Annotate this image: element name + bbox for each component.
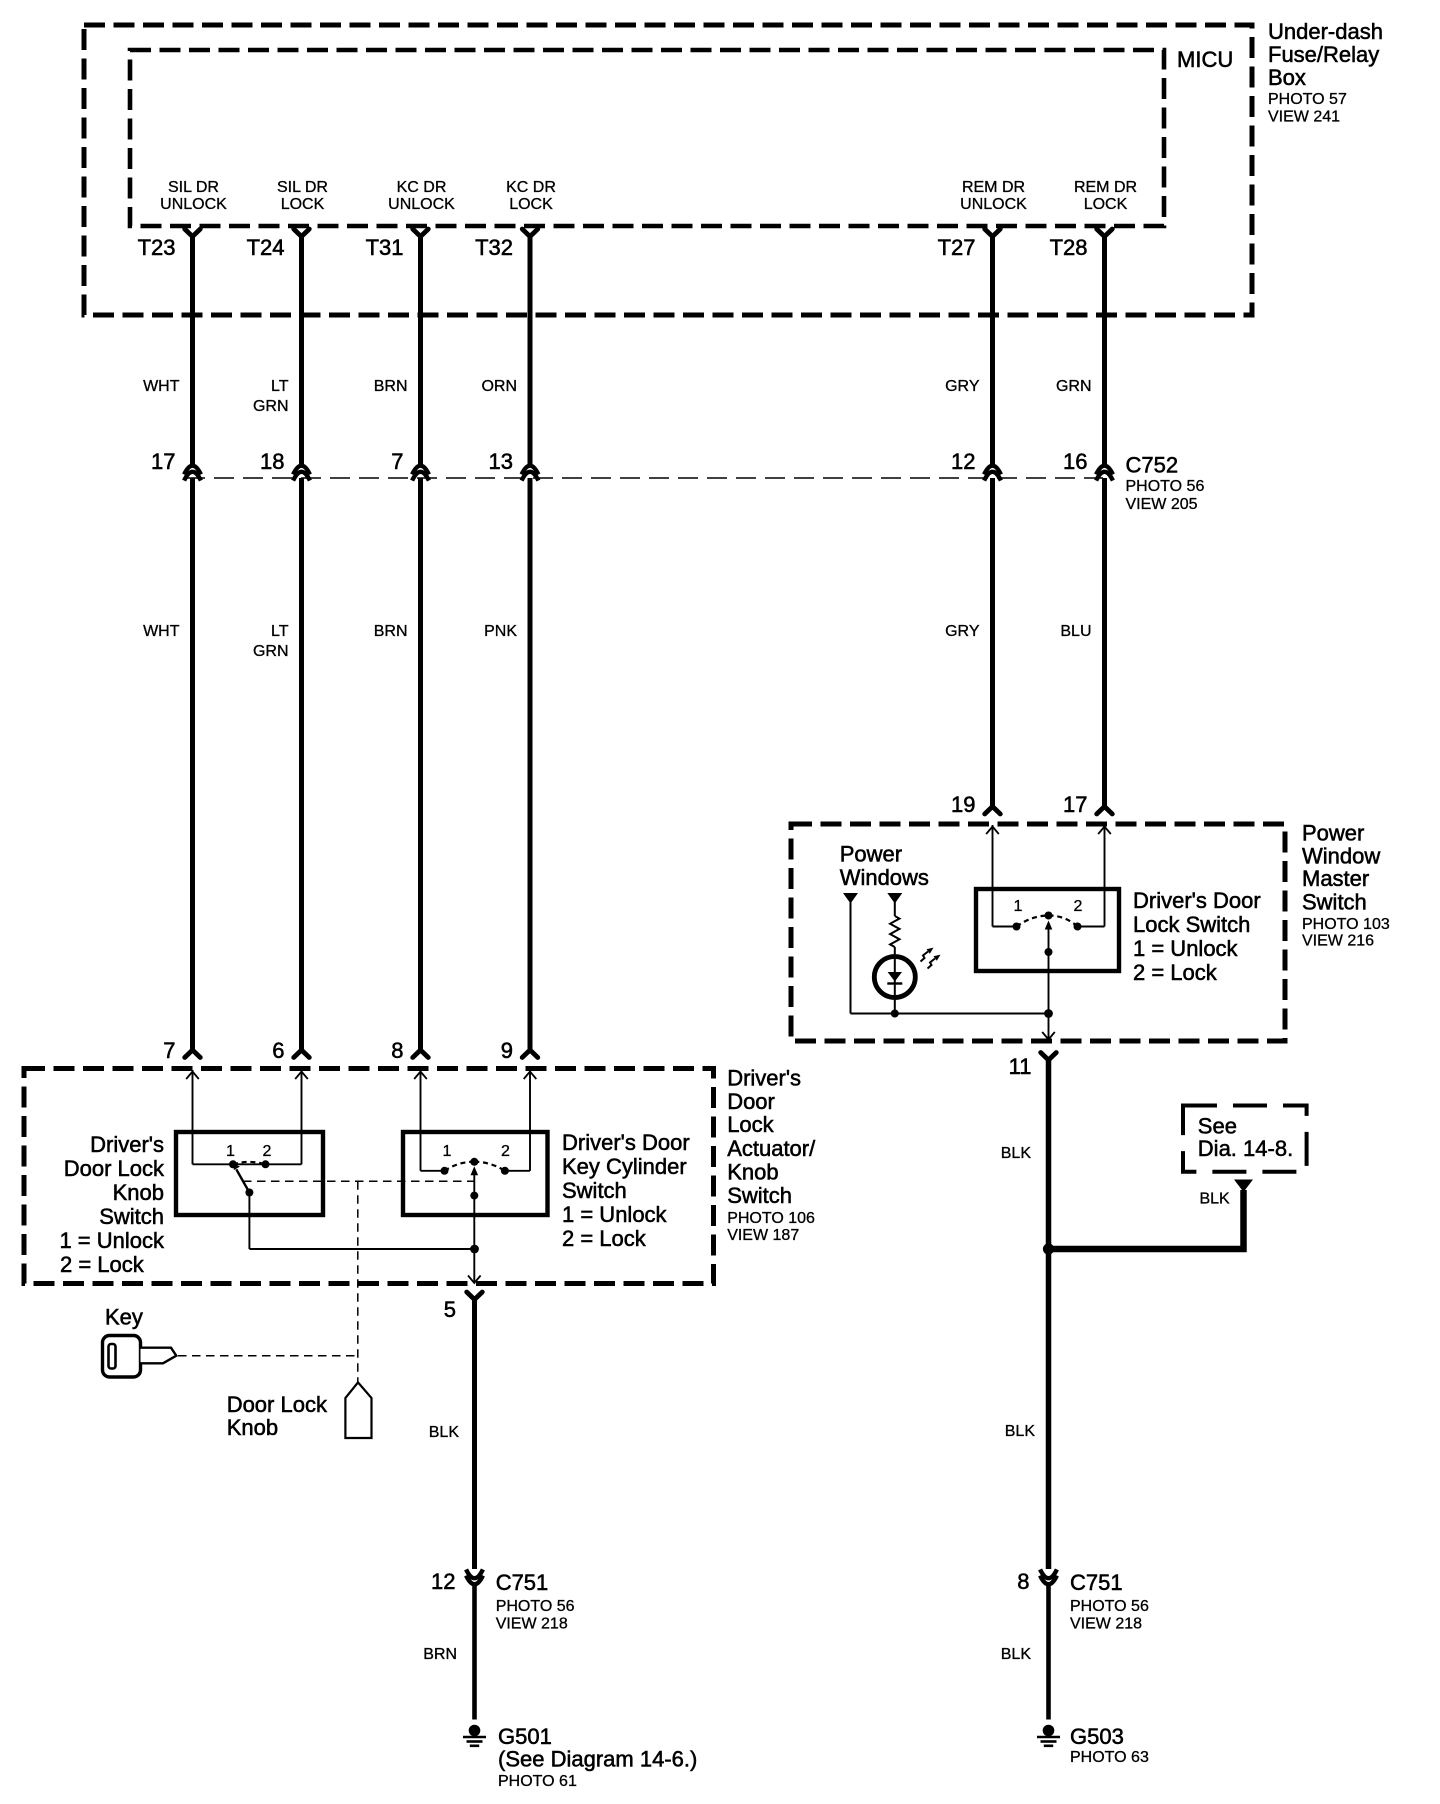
svg-text:Knob: Knob <box>113 1180 164 1205</box>
svg-text:2: 2 <box>1074 898 1083 915</box>
svg-text:VIEW 218: VIEW 218 <box>496 1616 568 1633</box>
svg-text:VIEW 205: VIEW 205 <box>1126 496 1198 513</box>
svg-text:17: 17 <box>151 449 175 474</box>
svg-text:PHOTO 56: PHOTO 56 <box>496 1598 575 1615</box>
svg-text:Key: Key <box>105 1305 143 1330</box>
svg-text:LT: LT <box>271 623 289 640</box>
svg-text:LOCK: LOCK <box>1084 196 1128 213</box>
svg-text:Switch: Switch <box>562 1178 627 1203</box>
svg-text:G503: G503 <box>1070 1724 1124 1749</box>
svg-text:WHT: WHT <box>143 623 180 640</box>
svg-text:Box: Box <box>1268 65 1306 90</box>
svg-text:2: 2 <box>263 1143 272 1160</box>
svg-text:9: 9 <box>501 1038 513 1063</box>
svg-text:ORN: ORN <box>481 378 517 395</box>
svg-text:(See Diagram 14-6.): (See Diagram 14-6.) <box>498 1747 697 1772</box>
svg-text:PNK: PNK <box>484 623 517 640</box>
svg-text:UNLOCK: UNLOCK <box>160 196 227 213</box>
svg-text:Actuator/: Actuator/ <box>727 1136 816 1161</box>
svg-text:PHOTO 103: PHOTO 103 <box>1302 916 1390 933</box>
svg-text:16: 16 <box>1063 449 1087 474</box>
svg-text:VIEW 218: VIEW 218 <box>1070 1616 1142 1633</box>
svg-text:Driver's: Driver's <box>727 1066 801 1091</box>
svg-text:BRN: BRN <box>423 1646 457 1663</box>
svg-text:2 = Lock: 2 = Lock <box>1133 960 1218 985</box>
svg-text:Driver's Door: Driver's Door <box>1133 888 1261 913</box>
svg-text:GRN: GRN <box>1056 378 1092 395</box>
svg-text:PHOTO 61: PHOTO 61 <box>498 1773 577 1790</box>
svg-text:Windows: Windows <box>840 865 929 890</box>
svg-text:T27: T27 <box>938 235 976 260</box>
svg-text:Door Lock: Door Lock <box>227 1392 328 1417</box>
svg-text:T24: T24 <box>247 235 285 260</box>
svg-text:REM DR: REM DR <box>1074 179 1137 196</box>
svg-text:C752: C752 <box>1126 453 1179 478</box>
svg-text:Lock: Lock <box>727 1112 774 1137</box>
svg-text:LT: LT <box>271 378 289 395</box>
svg-text:13: 13 <box>489 449 513 474</box>
svg-text:BLK: BLK <box>1199 1190 1230 1207</box>
svg-text:C751: C751 <box>1070 1570 1123 1595</box>
svg-text:11: 11 <box>1009 1054 1032 1079</box>
svg-text:SIL DR: SIL DR <box>277 179 328 196</box>
svg-text:Window: Window <box>1302 843 1380 868</box>
svg-text:2 = Lock: 2 = Lock <box>562 1226 647 1251</box>
svg-text:G501: G501 <box>498 1724 552 1749</box>
svg-text:Driver's Door: Driver's Door <box>562 1130 690 1155</box>
svg-text:KC DR: KC DR <box>397 179 447 196</box>
svg-text:GRN: GRN <box>253 398 289 415</box>
svg-text:See: See <box>1198 1114 1237 1139</box>
svg-text:BLK: BLK <box>429 1424 460 1441</box>
svg-text:LOCK: LOCK <box>509 196 553 213</box>
svg-text:BRN: BRN <box>374 623 408 640</box>
svg-text:BLU: BLU <box>1060 623 1091 640</box>
svg-text:WHT: WHT <box>143 378 180 395</box>
svg-text:UNLOCK: UNLOCK <box>960 196 1027 213</box>
svg-text:PHOTO 63: PHOTO 63 <box>1070 1749 1149 1766</box>
svg-text:7: 7 <box>163 1038 175 1063</box>
svg-text:Power: Power <box>1302 821 1364 846</box>
svg-text:MICU: MICU <box>1177 47 1233 72</box>
svg-text:Switch: Switch <box>99 1204 164 1229</box>
svg-text:Knob: Knob <box>727 1159 778 1184</box>
svg-text:2: 2 <box>501 1143 510 1160</box>
svg-text:LOCK: LOCK <box>281 196 325 213</box>
svg-text:BLK: BLK <box>1005 1423 1036 1440</box>
svg-text:T32: T32 <box>475 235 513 260</box>
svg-text:Master: Master <box>1302 866 1369 891</box>
svg-text:PHOTO 57: PHOTO 57 <box>1268 91 1347 108</box>
svg-text:BLK: BLK <box>1001 1145 1032 1162</box>
svg-text:Door: Door <box>727 1089 775 1114</box>
svg-text:5: 5 <box>444 1297 456 1322</box>
svg-text:18: 18 <box>260 449 284 474</box>
svg-text:Dia. 14-8.: Dia. 14-8. <box>1198 1136 1293 1161</box>
svg-text:GRN: GRN <box>253 643 289 660</box>
svg-text:GRY: GRY <box>945 378 980 395</box>
svg-text:KC DR: KC DR <box>506 179 556 196</box>
svg-text:T28: T28 <box>1050 235 1088 260</box>
svg-text:17: 17 <box>1063 792 1087 817</box>
svg-text:Power: Power <box>840 842 902 867</box>
svg-text:19: 19 <box>951 792 975 817</box>
svg-text:REM DR: REM DR <box>962 179 1025 196</box>
svg-text:BRN: BRN <box>374 378 408 395</box>
svg-text:UNLOCK: UNLOCK <box>388 196 455 213</box>
svg-text:1: 1 <box>1014 898 1023 915</box>
svg-text:Driver's: Driver's <box>90 1132 164 1157</box>
svg-text:1 = Unlock: 1 = Unlock <box>59 1228 165 1253</box>
svg-text:Fuse/Relay: Fuse/Relay <box>1268 42 1379 67</box>
svg-text:Door Lock: Door Lock <box>64 1156 165 1181</box>
svg-text:12: 12 <box>951 449 975 474</box>
svg-text:Knob: Knob <box>227 1415 278 1440</box>
svg-text:PHOTO 56: PHOTO 56 <box>1126 478 1205 495</box>
svg-text:VIEW 241: VIEW 241 <box>1268 109 1340 126</box>
svg-text:1: 1 <box>226 1143 235 1160</box>
svg-text:PHOTO 106: PHOTO 106 <box>727 1210 815 1227</box>
svg-text:Switch: Switch <box>1302 889 1367 914</box>
svg-text:PHOTO 56: PHOTO 56 <box>1070 1598 1149 1615</box>
svg-text:Switch: Switch <box>727 1183 792 1208</box>
svg-text:T23: T23 <box>138 235 176 260</box>
svg-text:1 = Unlock: 1 = Unlock <box>1133 936 1239 961</box>
svg-text:6: 6 <box>272 1038 284 1063</box>
svg-text:VIEW 187: VIEW 187 <box>727 1227 799 1244</box>
svg-text:Key Cylinder: Key Cylinder <box>562 1154 687 1179</box>
svg-text:C751: C751 <box>496 1570 549 1595</box>
svg-text:12: 12 <box>431 1569 455 1594</box>
svg-text:2 = Lock: 2 = Lock <box>60 1252 145 1277</box>
svg-text:SIL DR: SIL DR <box>168 179 219 196</box>
svg-text:8: 8 <box>391 1038 403 1063</box>
svg-text:Under-dash: Under-dash <box>1268 19 1383 44</box>
svg-text:BLK: BLK <box>1001 1646 1032 1663</box>
svg-text:GRY: GRY <box>945 623 980 640</box>
svg-text:7: 7 <box>391 449 403 474</box>
svg-text:1: 1 <box>443 1143 452 1160</box>
svg-text:Lock Switch: Lock Switch <box>1133 912 1250 937</box>
svg-text:8: 8 <box>1017 1569 1029 1594</box>
svg-text:VIEW 216: VIEW 216 <box>1302 933 1374 950</box>
svg-text:1 = Unlock: 1 = Unlock <box>562 1202 668 1227</box>
svg-text:T31: T31 <box>366 235 404 260</box>
